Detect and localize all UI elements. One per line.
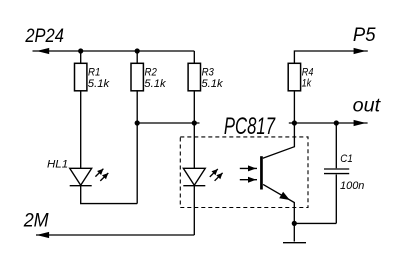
svg-text:C1: C1 [340,153,353,165]
node dot: rail/C1 [334,120,339,125]
wire R2 bottom down to HL1 return [136,91,138,204]
label C1 [340,153,353,165]
net 2P24 arrow [37,48,50,54]
wire PC817 LED cathode to 2M rail [193,186,195,235]
LED HL1 light arrows [95,169,108,181]
label R1 [88,67,100,79]
wire R2 top stub [136,51,138,63]
label HL1 [47,159,68,171]
label R4 [302,67,314,79]
svg-text:1k: 1k [302,78,312,90]
label PC817 (white backing over rail) [200,113,289,140]
node dot: rail/R1 [78,48,83,53]
capacitor C1 plates [324,169,349,174]
net label 2P24 [25,25,65,47]
value 1k (R4) [302,78,312,90]
svg-text:5.1k: 5.1k [144,78,166,90]
resistor R4 [288,63,300,91]
PC817 LED cathode bar [183,185,205,187]
label R3 [202,67,214,79]
wire C1 bottom link [294,222,336,224]
svg-text:5.1k: 5.1k [201,78,223,90]
svg-text:100n: 100n [340,180,364,192]
resistor R1 [75,63,87,91]
value 5.1k (R3) [201,78,223,90]
svg-text:P5: P5 [353,24,376,46]
svg-text:2P24: 2P24 [25,25,65,47]
net label P5 [353,24,376,46]
net out arrow [354,120,366,126]
wire C1 bottom [335,175,337,224]
svg-text:R3: R3 [202,67,214,79]
net 2M arrow [37,232,50,238]
net P5 wire [294,51,367,63]
PC817 base light arrow 1 [240,165,257,171]
LED HL1 cathode bar [70,185,92,187]
wire R1 bottom to HL1 [80,91,82,169]
node dot: rail/R3 bottom [192,120,197,125]
LED HL1 triangle [70,168,92,185]
node dot: rail/R2 bottom [135,120,140,125]
svg-text:HL1: HL1 [47,159,68,171]
wire mid rail (out net) [137,122,367,124]
wire PC817 LED anode [193,123,195,168]
svg-text:2M: 2M [23,209,49,231]
resistor R2 [131,63,143,91]
net label out [353,95,382,117]
value 5.1k (R1) [88,78,110,90]
svg-text:out: out [353,95,382,117]
wire R3 top stub [193,51,195,63]
PC817 LED light arrows [210,169,223,181]
net 2P24 wire (top rail) [33,50,195,52]
net P5 arrow [354,48,366,54]
net 2M rail [36,234,194,236]
svg-text:R1: R1 [88,67,100,79]
PC817 LED triangle [183,168,205,185]
svg-text:PC817: PC817 [224,113,276,140]
label R2 [145,67,157,79]
optocoupler U1 PC817 dashed box [180,137,308,208]
ground bar [283,242,306,244]
PC817 base light arrow 2 [240,177,257,183]
node dot: rail/R2 [135,48,140,53]
wire R4 bottom stub [293,91,295,123]
wire C1 top [335,123,337,168]
node dot: emitter/C1 bottom [292,221,297,226]
PC817 emitter arrowhead [279,192,290,200]
wire R3 bottom stub [193,91,195,123]
resistor R3 [188,63,200,91]
ground stem [293,223,295,241]
net label 2M [23,209,49,231]
svg-text:R2: R2 [145,67,157,79]
PC817 emitter wire [263,184,294,223]
value 100n [340,180,364,192]
wire HL1 cathode return (down, right to R2 branch) [81,186,138,204]
value 5.1k (R2) [144,78,166,90]
PC817 collector wire [263,123,295,158]
wire R1 top stub [80,51,82,63]
node dot: rail/R4 bottom [292,120,297,125]
svg-text:5.1k: 5.1k [88,78,110,90]
PC817 phototransistor base bar [260,156,263,189]
